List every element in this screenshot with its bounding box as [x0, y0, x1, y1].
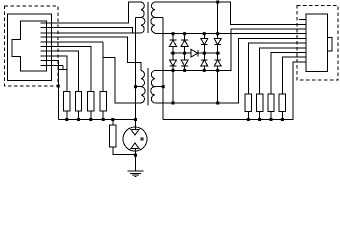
J1 pin 6: [41, 46, 58, 48]
ground: [127, 170, 143, 172]
DC plug P1: [123, 127, 147, 151]
junction bus/R4: [102, 118, 105, 121]
wire R4 drop: [102, 42, 104, 92]
junction minus rail/B2 col1: [203, 69, 206, 72]
transformer T2 primary winding: [141, 71, 145, 104]
junction bus/R7: [258, 118, 261, 121]
B2 diode D8 (up): [217, 53, 219, 60]
resistor R9: [279, 94, 285, 112]
junction bus/R9: [281, 118, 284, 121]
connector J1 outer body: [8, 14, 52, 81]
T1 secondary tap stub: [155, 16, 163, 18]
wire J2 pin6 to R6: [248, 43, 299, 94]
DC plug bottom lead: [135, 149, 137, 172]
connector J2 body: [306, 14, 328, 71]
wire J2 pin9 to R9: [282, 57, 299, 94]
J2 pin 2: [299, 23, 306, 25]
junction tap rail/T2 tap: [134, 85, 137, 88]
B1 diode D4 (down): [184, 53, 186, 60]
wire pin10 shield drop: [62, 65, 64, 69]
right shield bus: [163, 62, 299, 120]
resistor R5: [112, 120, 114, 126]
junction B2 mid col1: [203, 52, 206, 55]
wire pin5 to R4: [58, 41, 103, 43]
bridge B2 mid rail: [198, 52, 220, 54]
junction plug bottom/R5: [134, 154, 137, 157]
tap rail left (T1/T2 primary taps to DC plug): [135, 17, 137, 127]
branch to T2 primary bottom: [103, 58, 141, 104]
resistor R7: [256, 94, 262, 112]
wire T2 secondary bottom to right jack pin5: [155, 38, 299, 103]
junction bus/R5: [111, 118, 114, 121]
J1 pin 2: [41, 27, 58, 29]
J1 pin 7: [41, 50, 58, 52]
wire B1 col2 top feed: [184, 34, 186, 41]
wire pin8 to R1: [58, 56, 67, 92]
T1 primary tap stub: [136, 16, 142, 18]
J2 pin 7: [299, 47, 306, 49]
J1 pin 10 shield: [41, 64, 63, 66]
J2 clip bump: [327, 38, 332, 52]
B1 diode D3 (down): [172, 53, 174, 60]
junction bus/R3: [89, 118, 92, 121]
junction pair rail/B1: [172, 102, 175, 105]
junction pair rail/B2: [216, 102, 219, 105]
wire pin7 to R2: [58, 51, 79, 91]
left shield bus: [58, 119, 135, 121]
wire T1 secondary top to right jack pin2: [155, 2, 299, 24]
tap rail right: [162, 17, 164, 119]
junction B2 rail col1: [203, 32, 206, 35]
junction B1 rail col1: [172, 32, 175, 35]
wire pin6 to R3: [58, 47, 91, 92]
J2 pin 3: [299, 28, 306, 30]
junction B1 mid col2: [183, 52, 186, 55]
connector J1 cavity with clip: [12, 21, 46, 71]
junction B1 mid col1: [172, 52, 175, 55]
junction B1 rail col2: [183, 32, 186, 35]
junction B2 mid col2: [216, 52, 219, 55]
B1 diode D1 (up): [170, 39, 177, 41]
wire B1 col1 top feed: [172, 34, 174, 41]
resistor R6: [245, 94, 251, 112]
wire pin3 to T1 primary bottom: [58, 32, 141, 34]
junction bus/R8: [270, 118, 273, 121]
B2 diode D5 (down): [203, 34, 205, 39]
wire J2 pin8 to R8: [271, 53, 299, 94]
series diode D9 (right): [191, 49, 198, 57]
B2 diode D6 (down): [217, 2, 219, 39]
transformer T2 secondary winding: [151, 71, 155, 104]
junction shield/dashed crossing: [57, 85, 60, 88]
J1 pin 3: [41, 32, 58, 34]
J1 pin 4: [41, 36, 58, 38]
junction bus/R2: [77, 118, 80, 121]
resistor R2: [75, 92, 81, 112]
junction minus rail/B2 col2: [216, 69, 219, 72]
resistor R3: [88, 92, 94, 112]
left RJ45 dashed enclosure: [5, 6, 59, 86]
junction bus/R1: [65, 118, 68, 121]
right RJ45 dashed enclosure: [297, 6, 338, 81]
resistor R4: [100, 92, 106, 112]
wire J2 pin7 to R7: [260, 48, 299, 94]
J2 pin 5: [299, 37, 306, 39]
T2 primary tap stub: [136, 86, 142, 88]
B2 diode D7 (up): [203, 53, 205, 60]
junction top wire/B2 feed: [216, 1, 219, 4]
J1 pin 5: [41, 41, 58, 43]
wire pin1 to T1 primary top: [58, 2, 141, 23]
wire T1 secondary bottom rail to right jack pin4: [155, 32, 299, 35]
J2 pin 10: [299, 61, 306, 63]
wire pin4 to T2 primary top: [58, 37, 141, 70]
J2 pin 9: [299, 56, 306, 58]
B1 mid rail: [171, 52, 192, 54]
T2 secondary tap stub: [155, 86, 163, 88]
wire pin9 shield drop: [57, 61, 59, 120]
junction tap rail/bus: [134, 118, 137, 121]
DC plug top lead: [135, 120, 137, 130]
J1 pin 9 shield: [41, 60, 59, 62]
junction minus rail/B1 col2: [183, 69, 186, 72]
junction B2 rail col2: [216, 32, 219, 35]
wire pin2 to T1 primary bottom: [58, 28, 133, 33]
junction sec tap/T2: [162, 85, 165, 88]
wire T2 secondary top / bridge minus rail to right jack pin3: [155, 29, 299, 70]
T1 core: [147, 2, 149, 33]
J1 pin 8: [41, 55, 58, 57]
J2 pin 4: [299, 33, 306, 35]
J1 pin 1: [41, 22, 58, 24]
J2 pin 8: [299, 52, 306, 54]
resistor R1: [64, 92, 70, 112]
resistor R8: [268, 94, 274, 112]
transformer T1 primary winding: [141, 2, 145, 33]
T2 core: [147, 68, 149, 106]
transformer T1 secondary winding: [151, 2, 155, 33]
B1 diode D2 (up): [181, 39, 188, 41]
shield tie jog: [58, 69, 67, 71]
J2 pin 1: [299, 19, 306, 21]
junction bus/R6: [247, 118, 250, 121]
junction minus rail/B1 col1: [172, 69, 175, 72]
J2 pin 6: [299, 42, 306, 44]
